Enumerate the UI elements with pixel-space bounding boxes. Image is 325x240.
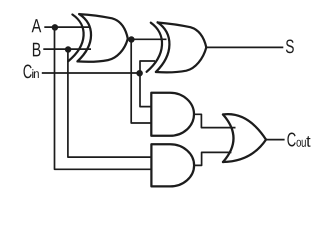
output label Cout subscript o <box>296 140 300 147</box>
input label Cin letter C <box>23 64 31 78</box>
wire XOR1 output to XOR2 upper input <box>131 38 167 40</box>
output label Cout letter C <box>287 132 295 146</box>
wire A lead <box>44 26 90 28</box>
output label Cout subscript u <box>302 140 306 147</box>
input label A <box>32 19 42 32</box>
input label Cin subscript i <box>32 69 33 78</box>
node B junction <box>65 46 72 53</box>
wire S output <box>206 46 283 48</box>
wire AND2 output to OR lower input <box>194 152 231 165</box>
or gate U5 (carry out) <box>223 114 266 162</box>
wire B lead <box>43 48 91 50</box>
node A junction <box>52 24 59 31</box>
wire AND1 output to OR upper input <box>194 114 236 127</box>
node Cin junction <box>136 70 143 77</box>
wire Cin lead <box>42 72 140 74</box>
wire B branch to AND2 upper input <box>68 49 152 157</box>
and gate U4 (A and B) <box>151 144 194 186</box>
xor gate U2 (sum = A xor B xor Cin) <box>147 22 207 72</box>
input label Cin subscript n <box>34 71 39 78</box>
output label S <box>286 39 294 53</box>
wire A branch to AND2 lower input <box>55 27 152 169</box>
input label B <box>33 43 41 57</box>
and gate U3 ((A xor B) and Cin) <box>151 93 194 136</box>
xor gate U1 (A xor B) <box>68 14 128 62</box>
wire Cout output <box>266 139 285 141</box>
node XOR1 output junction <box>128 36 135 43</box>
wire Cin branch down to AND1 upper input <box>140 73 152 107</box>
wire XOR1 output branch to AND1 lower input <box>131 39 151 123</box>
output label Cout subscript t <box>306 136 310 147</box>
wire Cin branch up to XOR2 lower input <box>140 61 155 73</box>
